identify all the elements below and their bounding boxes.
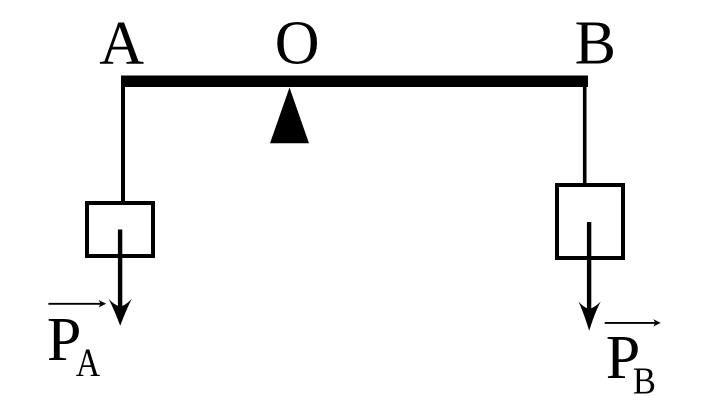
svg-text:O: O bbox=[275, 9, 320, 77]
beam AB bbox=[121, 76, 588, 88]
force arrow PB shaft bbox=[587, 222, 591, 311]
svg-text:A: A bbox=[99, 10, 144, 78]
force arrow PB head bbox=[578, 302, 600, 331]
wire right string from B bbox=[583, 87, 587, 185]
force arrow PA head bbox=[108, 299, 132, 326]
svg-text:B: B bbox=[633, 361, 656, 403]
svg-text:A: A bbox=[76, 340, 100, 385]
vector bar over PA bbox=[48, 303, 101, 305]
wire left string from A bbox=[121, 87, 125, 203]
fulcrum triangle bbox=[270, 88, 309, 144]
vector bar over PB bbox=[605, 322, 656, 324]
weight box right bbox=[557, 185, 623, 258]
weight box left bbox=[87, 203, 153, 256]
svg-text:B: B bbox=[575, 9, 616, 77]
force arrow PA shaft bbox=[118, 230, 122, 309]
